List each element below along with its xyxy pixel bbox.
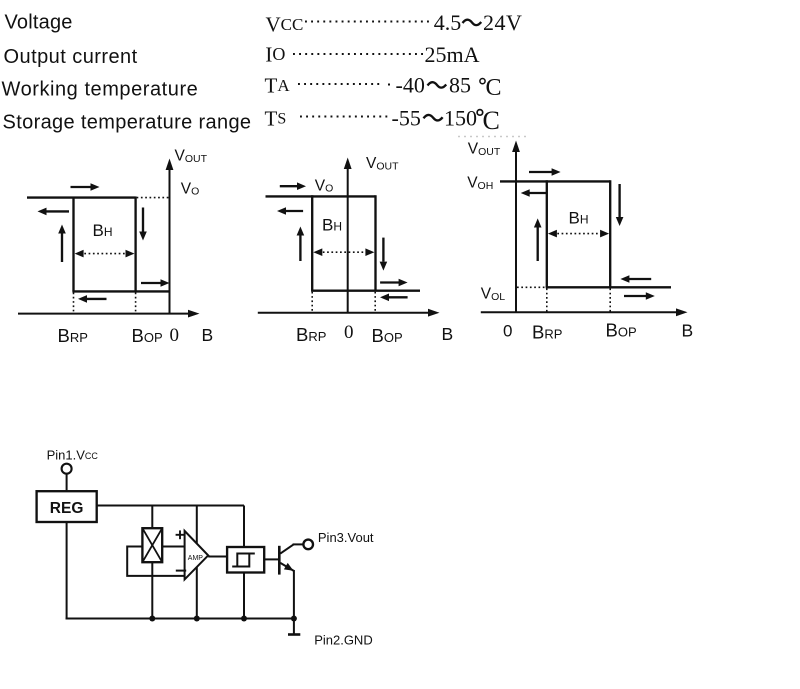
svg-text:24V: 24V xyxy=(483,10,522,35)
g3 y-axis Vout xyxy=(515,151,517,312)
g3 Bh dotted double arrow xyxy=(553,233,604,235)
g3 arrow right bottom xyxy=(624,295,647,297)
svg-text:Output current: Output current xyxy=(4,46,138,68)
g1 arrow right bottom xyxy=(141,282,161,284)
g1 arrow left bottom xyxy=(87,298,107,300)
faint artifact dots xyxy=(458,136,530,138)
g1 y-axis Vout xyxy=(169,169,171,314)
g1 dotted top to axis xyxy=(137,197,170,199)
svg-text:IO: IO xyxy=(265,43,285,67)
g2 arrow right bottom xyxy=(380,281,399,283)
g1 dotted drop Brp xyxy=(73,293,75,314)
g3 arrow down xyxy=(618,184,620,217)
g3 arrow up xyxy=(537,228,539,262)
svg-text:VOL: VOL xyxy=(481,286,506,304)
g2 arrow left bottom xyxy=(389,296,408,298)
svg-text:Pin2.GND: Pin2.GND xyxy=(314,633,373,648)
wire REG to ground rail xyxy=(66,522,68,620)
g3 dotted Vol to loop xyxy=(517,286,546,288)
graph 2 xyxy=(258,155,453,346)
spec row2 leader xyxy=(293,53,423,55)
wire hall left output loop xyxy=(127,547,184,576)
svg-text:TA: TA xyxy=(265,74,291,98)
wire emitter to ground rail xyxy=(293,570,295,619)
g3 x-axis B xyxy=(481,311,678,313)
g2 y-axis Vout xyxy=(347,168,349,313)
transistor Q1 xyxy=(279,544,303,574)
g2 arrow down xyxy=(382,238,384,262)
svg-text:Pin1.VCC: Pin1.VCC xyxy=(47,448,99,463)
g1 hysteresis bottom line xyxy=(72,290,169,292)
svg-text:TS: TS xyxy=(265,107,287,131)
g3 loop right vertical at Bop xyxy=(609,180,611,287)
svg-text:25mA: 25mA xyxy=(425,42,480,67)
graph 3 xyxy=(467,141,693,343)
g2 dotted drop Brp xyxy=(311,292,313,313)
wire Pin1 to REG xyxy=(66,474,68,492)
svg-text:BH: BH xyxy=(569,209,589,228)
g1 arrow down xyxy=(142,208,144,232)
spec row1 leader xyxy=(305,20,433,22)
svg-text:B: B xyxy=(202,325,214,345)
svg-text:0: 0 xyxy=(344,322,354,343)
svg-text:BOP: BOP xyxy=(606,320,637,341)
wire hall element to ground rail xyxy=(151,562,153,618)
g1 dotted drop Bop xyxy=(135,293,137,314)
g2 hysteresis top line xyxy=(266,195,376,197)
svg-text:Storage temperature range: Storage temperature range xyxy=(3,112,252,134)
svg-text:VOUT: VOUT xyxy=(175,148,208,166)
g1 loop right vertical at Bop xyxy=(134,197,136,292)
g1 loop left vertical at Brp xyxy=(72,197,74,292)
g1 arrow left upper xyxy=(47,210,70,212)
spec row3 leader xyxy=(298,83,380,85)
g3 dotted drop Brp xyxy=(546,288,548,312)
terminal Pin3 xyxy=(303,540,313,550)
amp minus input mark xyxy=(176,570,186,572)
wire amp power drop rail to ground xyxy=(196,506,198,619)
terminal Pin1 xyxy=(62,464,72,474)
svg-text:BRP: BRP xyxy=(58,325,88,346)
g3 arrow right top xyxy=(529,171,553,173)
g3 arrow left upper xyxy=(530,192,547,194)
junction hall-ground xyxy=(149,616,155,622)
svg-text:C: C xyxy=(486,75,502,101)
svg-text:VO: VO xyxy=(181,181,200,198)
g3 arrow left mid xyxy=(629,278,651,280)
g2 arrow up xyxy=(299,236,301,262)
svg-text:VO: VO xyxy=(315,178,334,195)
svg-text:-55: -55 xyxy=(392,106,421,131)
svg-text:B: B xyxy=(442,324,454,344)
g2 arrow left upper xyxy=(286,210,303,212)
wire schmitt output to transistor base xyxy=(264,558,279,560)
wire rail drop to hall element xyxy=(151,506,153,529)
g2 loop right vertical at Bop xyxy=(374,195,376,290)
svg-text:0: 0 xyxy=(503,322,512,341)
g2 Bh dotted double arrow xyxy=(319,251,370,253)
svg-text:VCC: VCC xyxy=(266,13,304,37)
svg-text:85: 85 xyxy=(449,73,471,98)
g2 dotted drop Bop xyxy=(374,292,376,313)
svg-text:BH: BH xyxy=(322,216,342,235)
svg-text:150: 150 xyxy=(444,106,477,131)
g1 x-axis B xyxy=(18,313,190,315)
g3 dotted drop Bop xyxy=(609,288,611,312)
g1 arrow up xyxy=(61,234,63,263)
schmitt trigger U1 xyxy=(227,547,264,573)
graph 1 xyxy=(18,148,213,347)
amp plus input mark xyxy=(176,530,185,539)
regulator REG xyxy=(37,491,97,522)
wire schmitt trigger to ground rail xyxy=(243,573,245,619)
svg-text:BH: BH xyxy=(93,221,113,240)
junction schmitt-ground xyxy=(241,616,247,622)
svg-text:-40: -40 xyxy=(396,73,425,98)
g2 x-axis B xyxy=(258,312,430,314)
svg-text:VOH: VOH xyxy=(467,175,493,193)
svg-text:VOUT: VOUT xyxy=(468,141,501,159)
svg-text:REG: REG xyxy=(50,500,84,517)
svg-text:BRP: BRP xyxy=(532,322,562,343)
hall element X1 xyxy=(142,528,162,562)
wire rail drop to schmitt trigger xyxy=(243,506,245,548)
wire ground rail xyxy=(66,618,295,620)
svg-text:0: 0 xyxy=(170,325,180,346)
svg-text:Working temperature: Working temperature xyxy=(2,79,199,101)
spec row4 leader xyxy=(300,115,389,117)
wire hall right output to amp xyxy=(162,546,184,548)
junction emitter-ground xyxy=(291,616,297,622)
svg-text:C: C xyxy=(483,106,500,135)
wire amp output to schmitt xyxy=(208,556,227,558)
g2 arrow right top xyxy=(280,185,299,187)
junction amp-ground xyxy=(194,616,200,622)
g3 hysteresis bottom line Vol xyxy=(546,286,671,288)
svg-text:B: B xyxy=(682,321,694,341)
spec table xyxy=(2,10,531,137)
g1 hysteresis top line xyxy=(27,196,136,198)
ground symbol xyxy=(288,619,300,635)
svg-text:BOP: BOP xyxy=(372,325,403,346)
g3 hysteresis top line Voh xyxy=(500,180,610,182)
svg-text:BRP: BRP xyxy=(296,324,326,345)
g1 Bh dotted double arrow xyxy=(80,253,129,255)
wire Vcc rail from REG xyxy=(97,505,244,507)
g2 loop left vertical at Brp xyxy=(311,195,313,290)
g1 arrow right top xyxy=(71,186,93,188)
svg-text:4.5: 4.5 xyxy=(434,10,462,35)
svg-text:VOUT: VOUT xyxy=(366,155,399,173)
g2 hysteresis bottom line xyxy=(311,290,420,292)
svg-text:AMP: AMP xyxy=(188,555,204,562)
g3 loop left vertical at Brp xyxy=(546,180,548,287)
svg-text:Pin3.Vout: Pin3.Vout xyxy=(318,530,374,545)
op-amp AMP xyxy=(185,531,209,580)
svg-text:Voltage: Voltage xyxy=(5,12,73,34)
circuit xyxy=(37,448,374,648)
svg-text:BOP: BOP xyxy=(132,325,163,346)
